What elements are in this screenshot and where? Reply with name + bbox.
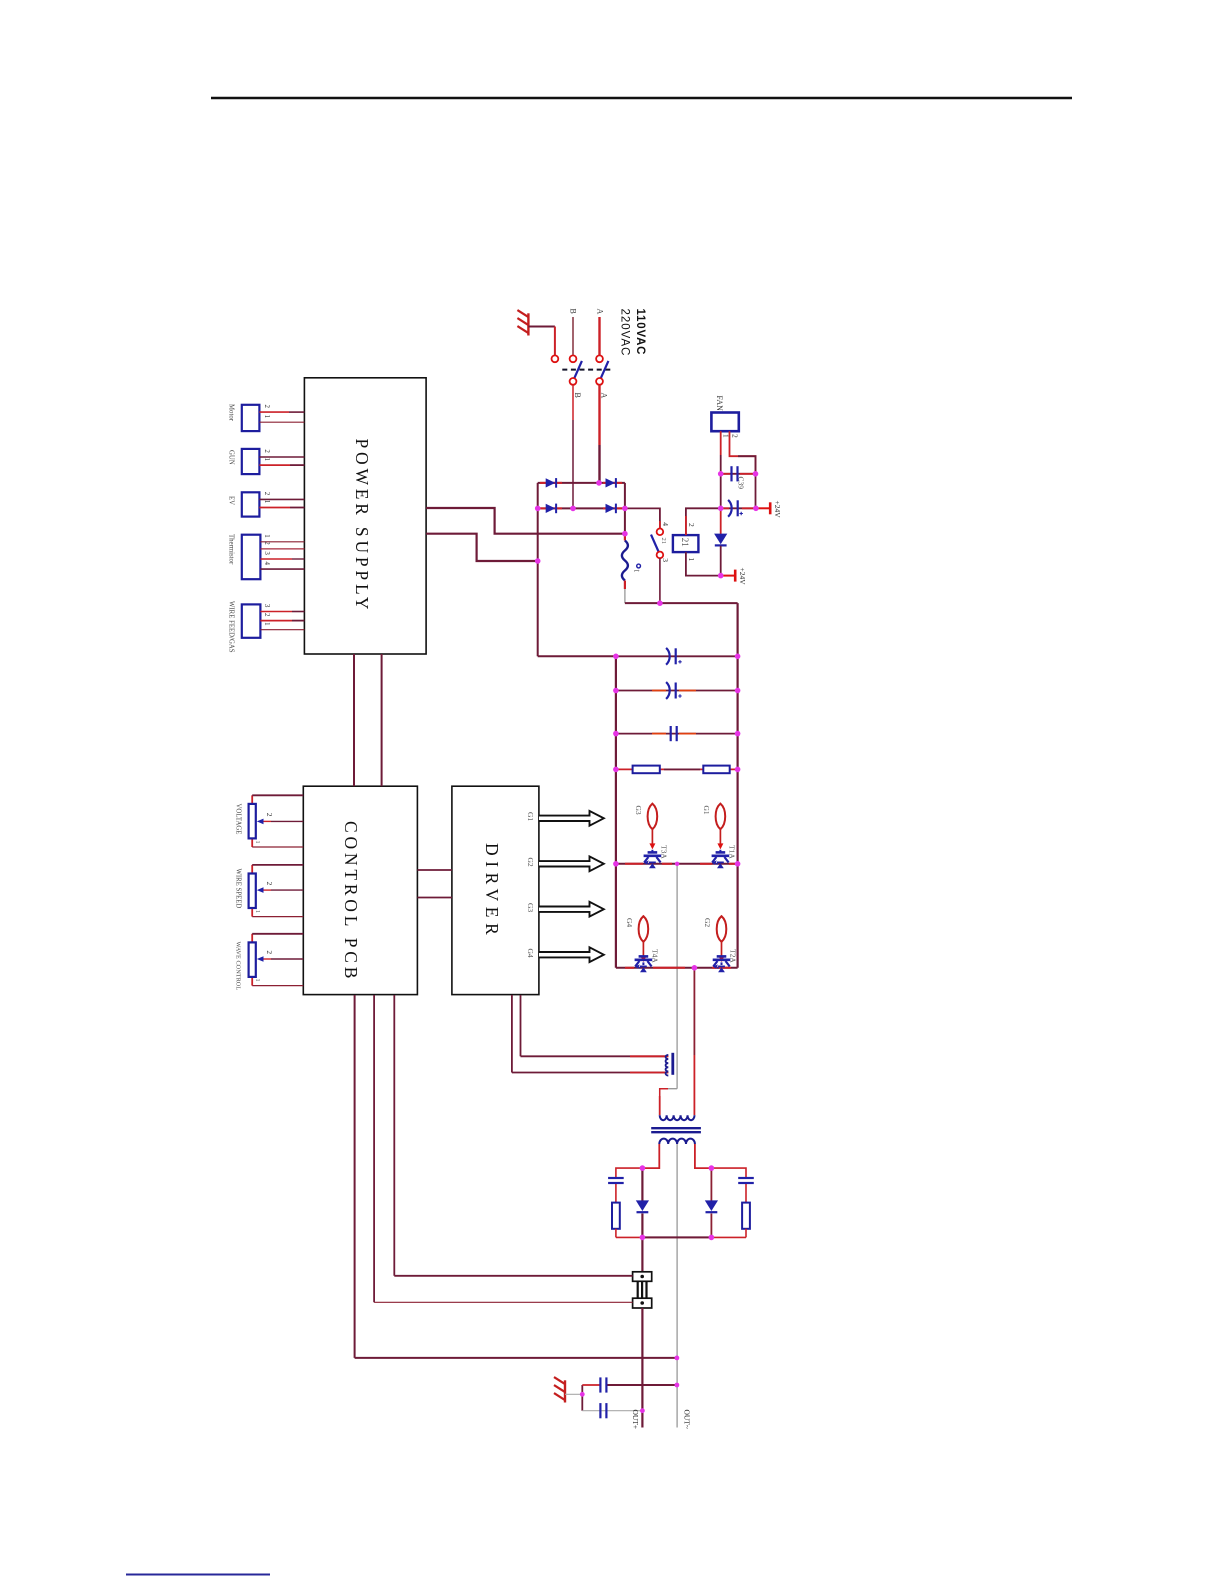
svg-text:+24V: +24V bbox=[738, 568, 747, 586]
svg-text:2: 2 bbox=[265, 950, 274, 954]
svg-text:OUT+: OUT+ bbox=[631, 1410, 640, 1430]
svg-text:WIRE FEED/GAS: WIRE FEED/GAS bbox=[228, 601, 235, 653]
svg-text:T1A: T1A bbox=[728, 845, 737, 859]
svg-text:2: 2 bbox=[263, 492, 271, 496]
svg-text:A: A bbox=[595, 309, 604, 315]
svg-text:G2: G2 bbox=[526, 858, 535, 867]
svg-text:4: 4 bbox=[263, 562, 271, 566]
svg-text:WIRE SPEED: WIRE SPEED bbox=[234, 869, 241, 909]
svg-text:1: 1 bbox=[687, 558, 696, 562]
svg-text:1: 1 bbox=[263, 534, 271, 538]
svg-text:1: 1 bbox=[263, 415, 271, 419]
svg-text:G2: G2 bbox=[703, 918, 712, 927]
svg-text:+24V: +24V bbox=[773, 501, 782, 519]
svg-text:POWER SUPPLY: POWER SUPPLY bbox=[352, 439, 372, 614]
svg-text:B: B bbox=[573, 393, 582, 398]
svg-text:2: 2 bbox=[263, 541, 271, 545]
svg-text:1: 1 bbox=[721, 434, 730, 438]
svg-text:2: 2 bbox=[263, 613, 271, 617]
svg-text:Thermistor: Thermistor bbox=[228, 534, 235, 565]
svg-text:G1: G1 bbox=[702, 806, 711, 815]
svg-text:3: 3 bbox=[661, 558, 670, 562]
svg-text:Motor: Motor bbox=[228, 404, 235, 422]
svg-text:1: 1 bbox=[263, 458, 271, 462]
svg-text:C39: C39 bbox=[737, 477, 746, 490]
svg-text:G3: G3 bbox=[526, 903, 535, 912]
svg-text:3: 3 bbox=[263, 604, 271, 608]
svg-text:4: 4 bbox=[661, 522, 670, 526]
svg-text:B: B bbox=[569, 309, 578, 314]
svg-text:T2A: T2A bbox=[729, 949, 738, 963]
svg-text:1: 1 bbox=[263, 500, 271, 504]
svg-text:G1: G1 bbox=[526, 812, 535, 821]
svg-text:GUN: GUN bbox=[228, 450, 235, 465]
svg-text:3: 3 bbox=[263, 551, 271, 555]
svg-text:G3: G3 bbox=[634, 806, 643, 815]
svg-text:FAN: FAN bbox=[715, 396, 724, 412]
svg-text:2: 2 bbox=[263, 405, 271, 409]
svg-text:21: 21 bbox=[660, 538, 667, 545]
svg-text:2: 2 bbox=[265, 813, 274, 817]
svg-text:DIRVER: DIRVER bbox=[482, 843, 502, 940]
svg-text:T4A: T4A bbox=[651, 949, 660, 963]
svg-text:OUT~: OUT~ bbox=[683, 1410, 692, 1429]
svg-text:1: 1 bbox=[254, 979, 260, 982]
svg-text:WAVE CONTROL: WAVE CONTROL bbox=[234, 942, 241, 991]
svg-text:1: 1 bbox=[254, 841, 260, 844]
svg-text:VOLTAGE: VOLTAGE bbox=[234, 804, 241, 835]
svg-text:1: 1 bbox=[263, 622, 271, 626]
svg-text:220VAC: 220VAC bbox=[618, 309, 630, 357]
svg-text:CONTROL PCB: CONTROL PCB bbox=[341, 821, 361, 982]
svg-text:2: 2 bbox=[263, 449, 271, 453]
svg-text:2: 2 bbox=[265, 882, 274, 886]
svg-text:EV: EV bbox=[228, 496, 235, 505]
svg-text:2: 2 bbox=[731, 434, 740, 438]
svg-text:21: 21 bbox=[680, 538, 690, 547]
svg-text:2: 2 bbox=[687, 523, 696, 527]
svg-text:G4: G4 bbox=[625, 918, 634, 927]
svg-text:110VAC: 110VAC bbox=[634, 309, 646, 356]
svg-text:G4: G4 bbox=[526, 949, 535, 958]
svg-text:T3A: T3A bbox=[660, 845, 669, 859]
svg-text:1: 1 bbox=[254, 910, 260, 913]
svg-text:A: A bbox=[600, 393, 609, 399]
